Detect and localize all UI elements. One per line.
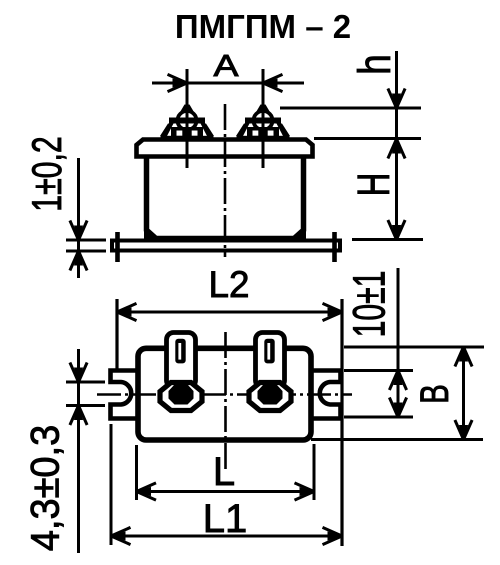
- centerline bottom view horizontal: [97, 393, 352, 396]
- dimension A extension line left: [186, 69, 189, 168]
- extension line plate top right: [352, 238, 423, 241]
- extension line slot bottom: [66, 404, 105, 407]
- terminal P2 octagon: [249, 383, 291, 411]
- terminal P1 stem (top view): [167, 333, 196, 388]
- extension line bracket top: [344, 369, 413, 372]
- dimension A arrow left: [168, 74, 188, 91]
- svg-text:1±0,2: 1±0,2: [23, 136, 70, 211]
- dimension L2 arrow left: [117, 303, 137, 320]
- terminal T1 (side view): [160, 105, 214, 142]
- dimension L2 line: [117, 311, 342, 314]
- dimension L extension left: [135, 445, 138, 500]
- dimension 10±1 line: [397, 268, 400, 417]
- dimension L1 extension left: [110, 424, 113, 545]
- body bottom chamfer right: [292, 229, 306, 241]
- extension line lid top: [314, 137, 421, 140]
- extension line plate top left: [66, 239, 106, 242]
- svg-text:H: H: [349, 173, 399, 197]
- svg-text:B: B: [413, 384, 457, 404]
- mounting bracket right: [312, 371, 341, 419]
- body bottom chamfer left: [144, 229, 158, 241]
- capacitor body (side view): [147, 158, 304, 239]
- terminal P1 center pad: [169, 385, 194, 405]
- base plate right tick: [332, 232, 337, 262]
- svg-text:A: A: [214, 48, 239, 83]
- dimension L arrow right: [295, 483, 315, 500]
- dimension A arrow right: [263, 74, 283, 91]
- dimension L1 arrow right: [323, 527, 343, 544]
- dimension 4,3±0,3 arrow down: [70, 363, 87, 383]
- dimension 1±0,2 line: [77, 158, 80, 278]
- extension line slot top: [66, 381, 105, 384]
- terminal P1 slot: [175, 339, 185, 364]
- dimension L2/L1 extension right: [340, 299, 343, 546]
- base plate (side view): [112, 241, 340, 251]
- dimension 1±0,2 arrow down: [70, 221, 87, 241]
- extension line body top right: [344, 346, 484, 349]
- centerline top view: [224, 104, 227, 257]
- terminal P2 center pad: [258, 385, 283, 405]
- svg-text:ПМГПМ – 2: ПМГПМ – 2: [175, 8, 351, 45]
- svg-text:L: L: [213, 450, 235, 494]
- svg-text:h: h: [350, 54, 400, 75]
- extension line bracket bottom: [344, 416, 413, 419]
- dimension L line: [137, 490, 315, 493]
- dimension 1±0,2 arrow up: [70, 251, 87, 271]
- svg-text:10±1: 10±1: [345, 271, 396, 338]
- svg-text:L2: L2: [209, 264, 250, 305]
- svg-text:L1: L1: [203, 497, 248, 541]
- terminal P1 octagon: [160, 383, 202, 411]
- base plate left tick: [115, 232, 120, 262]
- dimension A extension line right: [262, 69, 265, 168]
- dimension B line: [462, 347, 465, 440]
- mounting bracket left: [111, 371, 139, 419]
- dimension A line: [152, 82, 304, 85]
- dimension L2 extension left: [115, 299, 118, 369]
- terminal T2 (side view): [236, 105, 290, 142]
- capacitor lid (side view): [137, 140, 313, 157]
- dimension H arrow down: [388, 220, 405, 240]
- dimension h/H line: [395, 51, 398, 240]
- extension line body bottom right: [311, 438, 483, 441]
- extension line plate bottom left: [66, 250, 106, 253]
- extension line terminal top: [280, 107, 421, 110]
- dimension h/H arrow up: [388, 139, 405, 159]
- dimension L arrow left: [137, 483, 157, 500]
- terminal P2 slot: [264, 339, 274, 364]
- dimension L1 arrow left: [111, 527, 131, 544]
- dimension B arrow up: [455, 347, 472, 367]
- dimension h arrow down: [388, 89, 405, 109]
- dimension L extension right: [313, 444, 316, 500]
- capacitor body (top view): [138, 348, 311, 440]
- dimension 10±1 arrow up: [389, 371, 406, 391]
- dimension 4,3±0,3 arrow up: [70, 406, 87, 426]
- dimension L2 arrow right: [323, 303, 343, 320]
- dimension B arrow down: [455, 420, 472, 440]
- dimension 10±1 arrow down: [389, 398, 406, 418]
- terminal P2 stem (top view): [256, 333, 285, 388]
- svg-text:4,3±0,3: 4,3±0,3: [24, 425, 68, 551]
- dimension 4,3±0,3 line: [77, 349, 80, 553]
- dimension L1 line: [111, 535, 342, 538]
- centerline bottom view vertical: [224, 332, 227, 472]
